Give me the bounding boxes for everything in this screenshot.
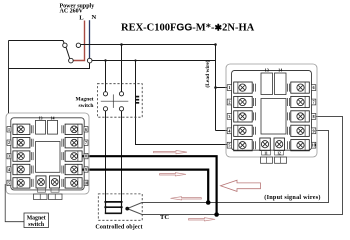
svg-text:N: N (92, 14, 97, 21)
svg-text:4: 4 (8, 167, 10, 172)
svg-text:1: 1 (228, 85, 230, 90)
svg-text:2: 2 (8, 140, 10, 145)
svg-text:7: 7 (85, 140, 87, 145)
svg-text:12: 12 (277, 151, 281, 155)
svg-text:10: 10 (84, 180, 88, 185)
svg-text:8: 8 (313, 114, 315, 119)
svg-text:6: 6 (85, 127, 87, 132)
svg-text:TC: TC (160, 214, 169, 221)
svg-text:switch: switch (79, 103, 94, 109)
svg-text:10: 10 (312, 143, 316, 148)
svg-text:8: 8 (85, 154, 87, 159)
svg-text:switch: switch (28, 222, 45, 228)
svg-text:9: 9 (85, 167, 87, 172)
svg-text:2: 2 (228, 100, 230, 105)
svg-text:14: 14 (51, 116, 55, 121)
svg-text:13: 13 (265, 68, 269, 73)
svg-text:3: 3 (8, 154, 10, 159)
svg-text:Controlled object: Controlled object (95, 224, 142, 230)
svg-text:7: 7 (313, 100, 315, 105)
svg-text:6: 6 (313, 85, 315, 90)
svg-text:5: 5 (8, 180, 10, 185)
svg-text:5: 5 (228, 143, 230, 148)
svg-text:11: 11 (264, 151, 268, 155)
svg-text:(Lead wire): (Lead wire) (204, 60, 211, 87)
svg-text:1: 1 (8, 127, 10, 132)
svg-text:L: L (79, 15, 84, 22)
svg-text:Magnet: Magnet (27, 216, 46, 222)
svg-text:(Input signal wires): (Input signal wires) (264, 194, 320, 201)
svg-text:13: 13 (39, 116, 43, 121)
svg-text:9: 9 (313, 128, 315, 133)
svg-text:3: 3 (228, 114, 230, 119)
svg-text:Magnet: Magnet (75, 97, 93, 103)
svg-text:REX-C100FGG-M*-✱2N-HA: REX-C100FGG-M*-✱2N-HA (121, 23, 255, 34)
